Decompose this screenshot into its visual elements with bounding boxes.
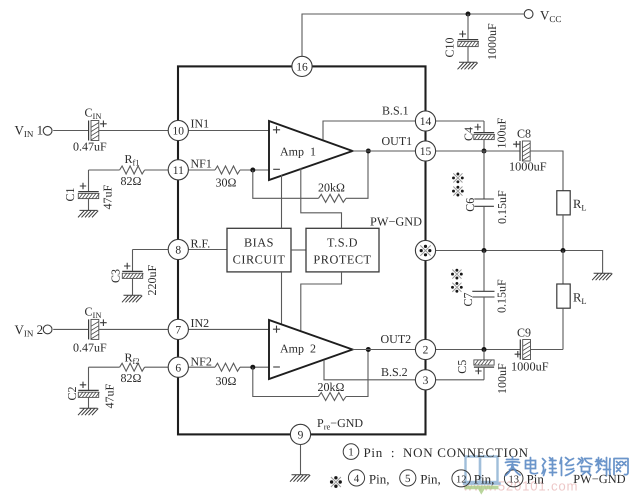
svg-text:10: 10 <box>173 126 185 138</box>
svg-text:B.S.1: B.S.1 <box>382 104 409 118</box>
watermark book icon <box>463 457 501 484</box>
capacitor C2 47uF <box>65 367 117 408</box>
legend text Pin, after 4 <box>369 472 390 487</box>
capacitor C10 1000uF <box>443 14 499 62</box>
wire TSD down to Amp2 <box>301 272 342 330</box>
resistor 30ohm NF2 <box>189 363 269 388</box>
svg-text:C1: C1 <box>63 187 77 201</box>
label B.S.2 <box>381 365 408 379</box>
legend text Pin, after 5 <box>420 472 441 487</box>
pin PW-GND (4,5,12,13) <box>415 240 435 260</box>
svg-text:C10: C10 <box>443 37 457 57</box>
wire Cin to pin 10 <box>99 130 168 132</box>
pin 7 <box>168 319 188 339</box>
svg-text:16: 16 <box>296 62 308 74</box>
svg-text:PROTECT: PROTECT <box>313 253 371 267</box>
svg-text:5: 5 <box>405 473 411 485</box>
capacitor C8 1000uF <box>509 127 547 174</box>
svg-text:PW−GND: PW−GND <box>370 215 422 229</box>
capacitor Cin 0.47uF input 1 <box>73 106 107 154</box>
node NF1 junction <box>250 168 255 173</box>
svg-text:4: 4 <box>354 473 360 485</box>
label NF1 <box>191 156 212 170</box>
svg-text:1000uF: 1000uF <box>485 23 499 60</box>
svg-text:BIAS: BIAS <box>244 236 274 250</box>
input terminal Vin2 <box>15 322 52 339</box>
ground below C3 <box>122 295 142 302</box>
pin 3 <box>415 370 435 390</box>
node PW junction RL column <box>561 248 566 253</box>
IC package outline <box>178 66 426 434</box>
svg-text:T.S.D: T.S.D <box>327 236 358 250</box>
svg-text:Pin,: Pin, <box>369 472 390 487</box>
legend circled 1 <box>343 444 359 460</box>
wire TSD up to Amp1 <box>301 168 342 228</box>
capacitor C3 220uF <box>109 250 160 296</box>
svg-text:47uF: 47uF <box>101 185 115 210</box>
svg-text:Amp 1: Amp 1 <box>280 144 316 158</box>
svg-text:C5: C5 <box>455 360 469 374</box>
capacitor C1 47uF <box>63 170 115 210</box>
watermark red url text <box>462 479 578 494</box>
capacitor C6 0.15uF <box>463 151 509 251</box>
legend text Pin after 13 <box>527 472 545 487</box>
legend text Pin, after 12 <box>474 472 495 487</box>
legend circled 12 <box>452 470 471 487</box>
star marker near C7 <box>451 269 463 293</box>
legend text PW-GND <box>573 472 625 486</box>
svg-text:3: 3 <box>423 375 429 387</box>
wire Cin2 to pin 7 <box>99 328 168 330</box>
pin 8 <box>168 239 188 259</box>
node OUT2 junction at amp output <box>366 347 371 352</box>
svg-text:C7: C7 <box>461 292 475 306</box>
svg-text:OUT2: OUT2 <box>381 332 412 346</box>
star marker near C6 <box>452 173 464 197</box>
node OUT2/C5/C7 junction <box>482 347 487 352</box>
svg-text:R.F.: R.F. <box>191 236 211 250</box>
node NF2 junction <box>250 365 255 370</box>
capacitor C7 0.15uF <box>461 251 509 350</box>
op-amp Amp 1 <box>269 121 353 180</box>
pin 2 <box>415 339 435 359</box>
resistor RL upper <box>557 191 587 215</box>
wire pin 8 to BIAS box <box>189 249 227 251</box>
pin 11 <box>168 160 188 180</box>
ground at right end <box>592 273 612 280</box>
svg-text:30Ω: 30Ω <box>216 374 237 388</box>
wire C9 to RL2 column <box>531 349 564 351</box>
wire B.S.1 pin 14 into amp <box>323 121 415 140</box>
svg-text:NF1: NF1 <box>191 156 212 170</box>
pin 9 <box>290 424 310 444</box>
wire Vcc from pin 16 to Vcc terminal <box>302 14 524 57</box>
pin 6 <box>168 357 188 377</box>
svg-text:220uF: 220uF <box>145 265 159 296</box>
svg-text:1: 1 <box>348 447 354 459</box>
label R.F. pin 8 <box>191 236 211 250</box>
label PW-GND <box>370 215 422 229</box>
input terminal Vin1 <box>15 123 52 140</box>
svg-text:47uF: 47uF <box>103 384 117 409</box>
svg-text:2: 2 <box>423 345 429 357</box>
legend circled 5 <box>400 470 416 486</box>
svg-text:82Ω: 82Ω <box>121 174 142 188</box>
svg-text:C8: C8 <box>517 127 531 141</box>
wire BIAS to TSD <box>291 249 306 251</box>
wire Vin2 to Cin2 <box>53 328 88 330</box>
svg-text:12: 12 <box>456 474 467 485</box>
wire Amp1 output to pin 15 <box>353 150 416 152</box>
wire pin 2 to C9 <box>436 349 521 351</box>
legend line 1 text <box>364 445 529 460</box>
svg-text:20kΩ: 20kΩ <box>318 181 345 195</box>
ground below C1 <box>78 210 98 217</box>
wire pin 8 to C3 <box>133 249 169 251</box>
svg-text:100uF: 100uF <box>495 363 509 394</box>
ground below C10 <box>458 62 478 69</box>
svg-text:30Ω: 30Ω <box>216 175 237 189</box>
label OUT2 <box>381 332 412 346</box>
svg-text:0.15uF: 0.15uF <box>495 279 509 313</box>
svg-text:100uF: 100uF <box>495 118 509 149</box>
wire C8 to RL1 <box>530 151 563 191</box>
label OUT1 <box>382 134 413 148</box>
svg-text:20kΩ: 20kΩ <box>318 380 345 394</box>
Vcc terminal <box>524 8 561 25</box>
svg-text:C9: C9 <box>517 326 531 340</box>
svg-text:15: 15 <box>420 146 432 158</box>
legend asterisk mark <box>330 476 342 488</box>
svg-text:1000uF: 1000uF <box>511 360 549 374</box>
svg-text:Pin,: Pin, <box>420 472 441 487</box>
pin 10 <box>168 120 188 140</box>
wire BIAS up to Amp1 <box>281 175 283 228</box>
wire Vin1 to Cin <box>53 130 88 132</box>
wire B.S.2 pin 3 into amp <box>324 360 415 380</box>
svg-text:0.47uF: 0.47uF <box>73 140 107 154</box>
svg-text:0.15uF: 0.15uF <box>495 190 509 224</box>
label B.S.1 <box>382 104 409 118</box>
label NF2 <box>191 354 212 368</box>
node OUT1 junction at amp output <box>366 149 371 154</box>
label IN2 <box>191 316 210 330</box>
wire pin 10 to Amp1 +input <box>189 130 269 132</box>
svg-text:CIRCUIT: CIRCUIT <box>233 253 286 267</box>
svg-text:C6: C6 <box>463 198 477 212</box>
capacitor Cin 0.47uF input 2 <box>73 305 107 355</box>
svg-text:8: 8 <box>175 245 181 257</box>
svg-text:82Ω: 82Ω <box>121 371 142 385</box>
resistor Rf2 82ohm <box>89 351 169 385</box>
svg-text:IN2: IN2 <box>191 316 210 330</box>
T.S.D PROTECT box <box>306 228 379 272</box>
svg-text:9: 9 <box>298 430 304 442</box>
svg-text:IN1: IN1 <box>191 117 210 131</box>
svg-text:C2: C2 <box>65 386 79 400</box>
resistor 30ohm NF1 <box>189 166 269 189</box>
svg-text:1000uF: 1000uF <box>509 160 547 174</box>
svg-text:PW−GND: PW−GND <box>573 472 625 486</box>
resistor 20k feedback 1 <box>253 151 368 202</box>
ground below C2 <box>78 408 98 415</box>
svg-text:C3: C3 <box>109 269 123 283</box>
wire pin 15 to C8 <box>436 150 520 152</box>
label IN1 <box>191 117 210 131</box>
resistor RL lower <box>557 251 587 309</box>
wire pin 9 to ground <box>300 445 302 475</box>
wire pin 7 to Amp2 +input <box>189 328 269 330</box>
svg-text:14: 14 <box>420 116 432 128</box>
legend circled 13 <box>504 470 523 487</box>
capacitor C5 100uF <box>455 350 509 395</box>
node Vcc junction <box>466 12 471 17</box>
svg-text:C4: C4 <box>462 127 476 141</box>
svg-text:Amp 2: Amp 2 <box>280 342 316 356</box>
wire pin 14 to C4 <box>436 120 484 122</box>
svg-text:13: 13 <box>508 474 519 485</box>
capacitor C4 100uF <box>462 118 509 152</box>
svg-text:Pin : NON CONNECTION: Pin : NON CONNECTION <box>364 445 529 460</box>
legend circled 4 <box>348 470 364 486</box>
wire RL2 down to OUT2 row <box>562 308 564 349</box>
svg-text:11: 11 <box>173 165 184 177</box>
svg-text:6: 6 <box>175 362 181 374</box>
label Pre-GND <box>317 416 363 432</box>
pin 15 <box>415 141 435 161</box>
BIAS CIRCUIT box <box>227 228 291 272</box>
PW-GND bus wire <box>436 251 603 274</box>
svg-text:OUT1: OUT1 <box>382 134 413 148</box>
pin 14 <box>415 111 435 131</box>
node OUT1/C4/C6 junction <box>482 149 487 154</box>
node PW junction C7 column <box>482 248 487 253</box>
svg-text:NF2: NF2 <box>191 354 212 368</box>
wire pin 3 to C5 <box>436 379 484 381</box>
capacitor C9 1000uF <box>511 326 549 374</box>
resistor 20k feedback 2 <box>253 350 368 401</box>
svg-text:0.47uF: 0.47uF <box>73 341 107 355</box>
watermark chinese text jiadian weixiu ziliao wang <box>506 457 629 476</box>
op-amp Amp 2 <box>269 320 353 379</box>
resistor Rf1 82ohm <box>89 152 169 188</box>
ground below pin 9 <box>290 475 310 482</box>
svg-text:7: 7 <box>175 325 181 337</box>
svg-text:Pin,: Pin, <box>474 472 495 487</box>
svg-text:B.S.2: B.S.2 <box>381 365 408 379</box>
wire BIAS down to Amp2 <box>281 272 283 324</box>
wire Amp2 output to pin 2 <box>353 349 416 351</box>
wire RL1 to PW-GND line <box>562 215 564 251</box>
pin 16 <box>292 56 312 76</box>
